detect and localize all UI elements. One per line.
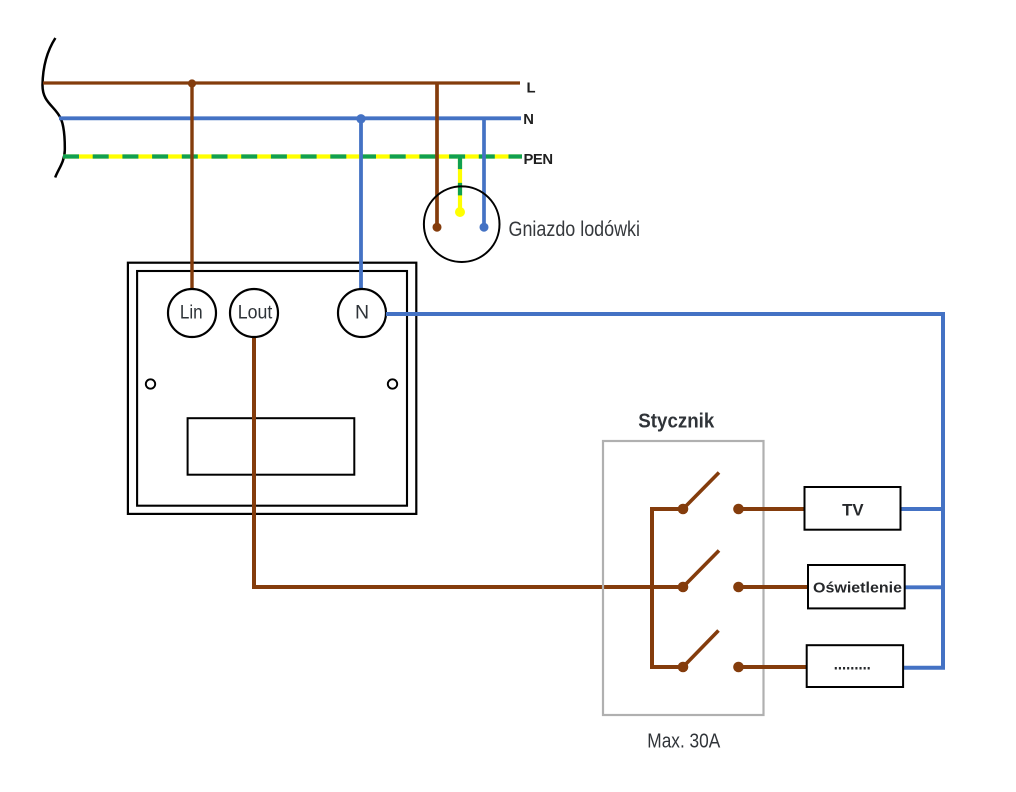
terminal N [338, 289, 386, 337]
wire L to socket [435, 83, 439, 224]
wire neutral bus to Oswietlenie [905, 585, 945, 589]
contactor feed bus [652, 509, 683, 667]
wire switch 1 to TV [739, 507, 806, 511]
load box Oswietlenie [808, 565, 905, 608]
svg-text:PEN: PEN [524, 152, 554, 168]
L pin dot (brown) [433, 223, 442, 232]
wire PEN (yellow-green dashed line) [63, 154, 522, 158]
load box TV [805, 487, 901, 530]
meter display window [188, 418, 355, 475]
wire L (brown phase line) [43, 81, 520, 84]
switch 1 hinge dot [678, 504, 689, 515]
svg-text:Oświetlenie: Oświetlenie [813, 580, 902, 597]
socket circle Gniazdo lodowki [424, 186, 500, 262]
screw hole right [388, 379, 397, 388]
cable break squiggle [42, 38, 64, 178]
switch 2 contact dot [733, 582, 744, 593]
wire switch 2 to Oswietlenie [739, 585, 810, 589]
switch 1 contact dot [733, 504, 744, 515]
switch 2 hinge dot [678, 582, 689, 593]
junction dot on N [356, 114, 365, 123]
svg-text:N: N [355, 302, 369, 324]
PEN pin dot (yellow) [455, 207, 465, 217]
wire L to Lin terminal [190, 83, 193, 290]
wire N terminal to right neutral bus [386, 314, 943, 668]
switch 1 blade [683, 473, 719, 510]
svg-text:N: N [523, 112, 534, 128]
svg-text:Stycznik: Stycznik [638, 409, 715, 432]
svg-text:Lin: Lin [180, 302, 203, 324]
wire N to socket [482, 118, 486, 224]
wire Lout to contactor bus [254, 335, 683, 587]
wire switch 3 to spare load [739, 665, 809, 669]
terminal Lin [168, 289, 216, 337]
svg-text:.........: ......... [834, 655, 871, 673]
switch 3 blade [683, 631, 719, 668]
svg-text:L: L [527, 80, 536, 96]
terminal Lout [230, 289, 278, 337]
wire N to N terminal [359, 118, 363, 290]
switch 2 blade [683, 551, 719, 588]
svg-text:Gniazdo lodówki: Gniazdo lodówki [509, 218, 641, 241]
switch 3 hinge dot [678, 662, 689, 673]
load box spare (dots) [807, 645, 903, 687]
meter outer box [128, 263, 416, 514]
N pin dot (blue) [480, 223, 489, 232]
wire N (blue neutral line) [59, 116, 521, 120]
contactor box [603, 441, 764, 715]
svg-text:Max. 30A: Max. 30A [647, 730, 720, 753]
svg-text:Lout: Lout [238, 302, 273, 324]
meter inner box [137, 271, 407, 506]
wire PEN branch to socket [458, 157, 462, 208]
svg-text:TV: TV [842, 501, 864, 520]
switch 3 contact dot [733, 662, 744, 673]
junction dot on L [188, 79, 196, 87]
wire neutral bus to TV [901, 507, 945, 511]
screw hole left [146, 379, 155, 388]
